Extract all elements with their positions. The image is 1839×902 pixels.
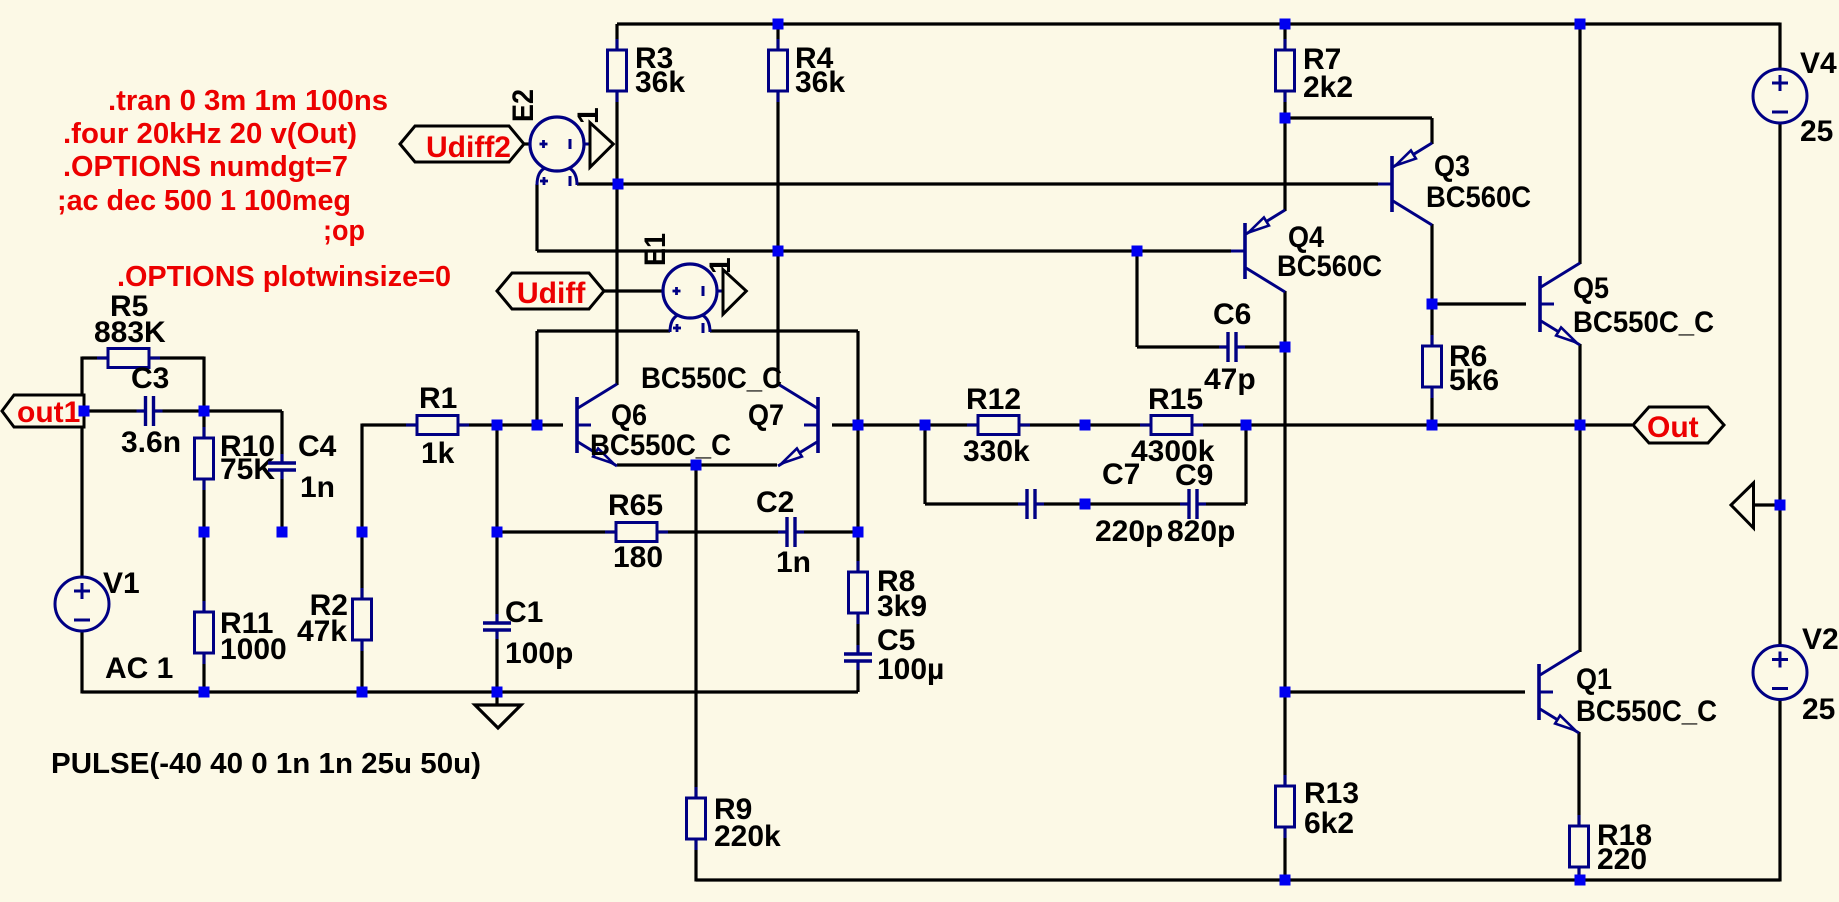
wire <box>856 661 859 692</box>
resistor R13 <box>1276 775 1295 838</box>
wire <box>1035 502 1189 505</box>
wire out1 flag to V1 <box>80 427 83 577</box>
resistor R5 <box>97 349 160 368</box>
node junction (362,532) <box>357 527 368 538</box>
svg-text:.tran 0 3m 1m 100ns: .tran 0 3m 1m 100ns <box>108 85 388 117</box>
wire bottom negative rail <box>696 878 1780 881</box>
node junction (1432,425) <box>1427 420 1438 431</box>
svg-text:C3: C3 <box>131 362 169 395</box>
net flag out1 <box>2 395 84 427</box>
resistor R12 <box>967 416 1030 435</box>
resistor R11 <box>195 601 214 664</box>
dependent source E2 <box>530 117 590 186</box>
node junction (204,532) <box>199 527 210 538</box>
svg-text:25: 25 <box>1800 115 1833 148</box>
wire <box>856 614 859 654</box>
wire V1 minus to ground bus <box>80 631 83 694</box>
resistor R6 <box>1423 335 1442 398</box>
wire <box>280 470 283 532</box>
node junction (1285,880) <box>1280 875 1291 886</box>
svg-text:3k9: 3k9 <box>877 590 927 623</box>
wire E1 minus control down to Q7 base <box>856 331 859 425</box>
node junction (1580,24) <box>1575 19 1586 30</box>
wire E1 minus control right <box>710 329 858 332</box>
node junction (497,425) <box>492 420 503 431</box>
node junction (362,692) <box>357 687 368 698</box>
svg-text:100p: 100p <box>505 637 573 670</box>
node junction (1285,692) <box>1280 687 1291 698</box>
svg-text:1: 1 <box>572 107 605 124</box>
svg-text:E1: E1 <box>639 233 672 266</box>
svg-text:C1: C1 <box>505 596 543 629</box>
wire C9 right up to R15 right <box>1244 425 1247 504</box>
svg-text:C2: C2 <box>756 486 794 519</box>
wire Udiff flag to E1 <box>604 289 664 292</box>
capacitor C7 <box>1018 489 1044 519</box>
svg-text:220k: 220k <box>714 820 781 853</box>
wire <box>776 24 779 50</box>
wire <box>1430 118 1433 144</box>
node junction (1432,304) <box>1427 299 1438 310</box>
wire E2 plus control down <box>535 184 538 251</box>
svg-text:.four 20kHz 20 v(Out): .four 20kHz 20 v(Out) <box>63 118 357 150</box>
wire to C6 left plate <box>1137 345 1228 348</box>
node junction (1580,880) <box>1575 875 1586 886</box>
svg-text:1000: 1000 <box>220 633 287 666</box>
svg-text:47p: 47p <box>1204 363 1256 396</box>
svg-text:R65: R65 <box>608 489 663 522</box>
svg-text:220p: 220p <box>1095 515 1163 548</box>
svg-text:V1: V1 <box>103 567 140 600</box>
node junction (618,184) <box>613 179 624 190</box>
wire C1 column <box>495 425 498 623</box>
wire Q5 emitter node to Q1 collector <box>1578 425 1581 652</box>
svg-text:BC560C: BC560C <box>1277 250 1382 283</box>
resistor R7 <box>1276 39 1295 102</box>
node junction (204,692) <box>199 687 210 698</box>
wire Q1 emitter to R18 <box>1577 732 1580 826</box>
svg-text:1: 1 <box>704 257 737 274</box>
svg-text:36k: 36k <box>795 66 845 99</box>
transistor Q4 (PNP) <box>1231 210 1285 292</box>
svg-text:V4: V4 <box>1800 47 1837 80</box>
wire <box>202 653 205 692</box>
svg-text:1n: 1n <box>776 546 811 579</box>
resistor R1 <box>406 416 469 435</box>
wire R5 right lead down <box>149 356 204 359</box>
svg-text:Q5: Q5 <box>1573 272 1609 305</box>
net flag Udiff <box>497 273 604 309</box>
wire C7 bypass bus <box>925 502 1027 505</box>
svg-text:5k6: 5k6 <box>1449 364 1499 397</box>
wire <box>1283 24 1286 50</box>
wire <box>1577 866 1580 882</box>
wire R2 column <box>360 532 363 599</box>
wire V2 minus down to bottom rail <box>1778 699 1781 882</box>
svg-text:V2: V2 <box>1802 623 1839 656</box>
node junction (858,532) <box>853 527 864 538</box>
wire Q6 Q7 emitter bus <box>617 463 777 466</box>
wire Q7 base node down to R8 <box>856 425 859 572</box>
svg-text:220: 220 <box>1597 843 1647 876</box>
wire junction down to C7 <box>923 425 926 504</box>
wire R6 top to Q5 base <box>1432 302 1526 305</box>
svg-text:6k2: 6k2 <box>1304 807 1354 840</box>
wire Q5 emitter down <box>1578 344 1581 425</box>
svg-text:out1: out1 <box>17 396 80 429</box>
voltage source V1 <box>55 577 109 631</box>
wire C3 to node <box>154 409 282 412</box>
svg-text:.OPTIONS numdgt=7: .OPTIONS numdgt=7 <box>63 151 348 183</box>
wire E2 plus control to Q4 base <box>537 249 1231 252</box>
svg-text:1n: 1n <box>300 471 335 504</box>
svg-text:Q6: Q6 <box>611 399 647 432</box>
capacitor C5 <box>844 645 872 670</box>
svg-text:;op: ;op <box>323 215 365 247</box>
wire Q5 collector to top rail <box>1578 24 1581 264</box>
resistor R10 <box>195 427 214 490</box>
wire Q7 base to R12 <box>832 423 978 426</box>
svg-text:Out: Out <box>1647 411 1699 444</box>
wire Q4 collector down to R13 and Q1 base <box>1283 291 1286 786</box>
wire top supply rail <box>617 22 1780 25</box>
transistor Q6 (NPN) <box>577 384 617 466</box>
transistor Q1 (NPN) <box>1539 651 1579 733</box>
wire <box>615 24 618 50</box>
node junction (84,411) <box>79 406 90 417</box>
svg-text:Q7: Q7 <box>748 399 784 432</box>
ground symbol (left-pointing, between V4 and V2) <box>1731 483 1754 528</box>
wire <box>1197 502 1246 505</box>
wire Q3 collector to R6 <box>1430 224 1433 346</box>
svg-text:820p: 820p <box>1167 515 1235 548</box>
wire C2 to junction <box>795 530 858 533</box>
wire <box>360 640 363 692</box>
svg-text:BC550C_C: BC550C_C <box>1576 695 1717 728</box>
wire E1 plus control left <box>537 329 670 332</box>
wire ground bus <box>82 690 858 693</box>
node junction (1780,505) <box>1775 500 1786 511</box>
gain triangle of E1 <box>723 270 746 315</box>
node junction (497,692) <box>492 687 503 698</box>
node junction (1285,118) <box>1280 113 1291 124</box>
node junction (1285,24) <box>1280 19 1291 30</box>
node junction (778,251) <box>773 246 784 257</box>
svg-text:Udiff2: Udiff2 <box>426 131 511 164</box>
svg-text:BC550C_C: BC550C_C <box>1573 306 1714 339</box>
svg-text:PULSE(-40 40 0 1n 1n 25u 50u): PULSE(-40 40 0 1n 1n 25u 50u) <box>51 748 481 780</box>
wire V4 to V2 <box>1778 123 1781 646</box>
wire Q1 base <box>1285 690 1525 693</box>
svg-text:;ac dec 500 1 100meg: ;ac dec 500 1 100meg <box>57 185 351 217</box>
svg-text:BC560C: BC560C <box>1426 181 1531 214</box>
voltage source V4 <box>1753 69 1807 123</box>
wire R1 left lead corner <box>362 423 417 426</box>
resistor R65 <box>605 523 668 542</box>
node junction (1246,425) <box>1241 420 1252 431</box>
resistor R15 <box>1140 416 1203 435</box>
ground symbol <box>495 692 498 705</box>
svg-text:R1: R1 <box>419 382 457 415</box>
svg-text:R12: R12 <box>966 383 1021 416</box>
gain triangle of E2 <box>590 123 613 168</box>
svg-text:R13: R13 <box>1304 777 1359 810</box>
wire E1 plus control down to Q6 base <box>535 331 538 425</box>
svg-text:25: 25 <box>1802 693 1835 726</box>
wire top rail right corner down to V4 <box>1778 23 1781 70</box>
wire <box>202 532 205 612</box>
wire <box>202 479 205 532</box>
node junction (282,532) <box>277 527 288 538</box>
capacitor C6 <box>1219 332 1245 362</box>
wire emitter bus down to R9 <box>694 465 697 798</box>
dependent source E1 <box>663 264 723 333</box>
svg-text:883K: 883K <box>94 316 166 349</box>
node junction (925,425) <box>920 420 931 431</box>
wire R6 bottom to output row <box>1430 387 1433 425</box>
node junction (497,532) <box>492 527 503 538</box>
node junction (1285,347) <box>1280 342 1291 353</box>
svg-text:BC550C_C: BC550C_C <box>641 362 782 395</box>
node junction (858,425) <box>853 420 864 431</box>
wire R7 junction to Q4 emitter <box>1283 118 1286 211</box>
wire R1 to Q6 base <box>458 423 563 426</box>
svg-text:Q1: Q1 <box>1576 663 1612 696</box>
wire out1 node to C3 <box>84 409 145 412</box>
transistor Q3 (PNP) <box>1378 143 1432 225</box>
wire Q4 base junction down <box>1135 251 1138 347</box>
resistor R3 <box>608 39 627 102</box>
svg-text:75K: 75K <box>220 453 275 486</box>
svg-text:R15: R15 <box>1148 383 1203 416</box>
transistor Q7 (NPN) <box>778 384 818 466</box>
node junction (696,465) <box>691 460 702 471</box>
wire <box>1283 827 1286 880</box>
net flag Out <box>1633 407 1724 443</box>
wire E2 minus control to Q3 base <box>577 182 1378 185</box>
wire R65 row left <box>497 530 787 533</box>
resistor R8 <box>849 561 868 624</box>
node junction (1085,425) <box>1080 420 1091 431</box>
voltage source V2 <box>1753 646 1807 700</box>
svg-text:Udiff: Udiff <box>517 277 586 310</box>
wire <box>495 630 498 692</box>
node junction (1137,251) <box>1132 246 1143 257</box>
resistor R9 <box>687 787 706 850</box>
wire R12 to R15 <box>1019 423 1151 426</box>
capacitor C2 <box>778 517 804 547</box>
wire <box>1236 345 1285 348</box>
svg-text:C6: C6 <box>1213 298 1251 331</box>
resistor R2 <box>353 588 372 651</box>
svg-text:3.6n: 3.6n <box>121 426 181 459</box>
svg-text:100µ: 100µ <box>877 653 944 686</box>
svg-text:2k2: 2k2 <box>1303 71 1353 104</box>
node junction (204,411) <box>199 406 210 417</box>
svg-text:C7: C7 <box>1102 458 1140 491</box>
resistor R4 <box>769 39 788 102</box>
svg-text:BC550C_C: BC550C_C <box>590 429 731 462</box>
capacitor C1 <box>483 614 511 639</box>
svg-text:180: 180 <box>613 541 663 574</box>
node junction (537,425) <box>532 420 543 431</box>
wire <box>1283 91 1286 118</box>
svg-text:E2: E2 <box>507 89 540 122</box>
node junction (1580,425) <box>1575 420 1586 431</box>
capacitor C4 <box>268 454 296 479</box>
wire R3 bottom to Q6 collector <box>615 91 618 385</box>
svg-text:47k: 47k <box>297 615 347 648</box>
wire R5 left lead <box>82 356 108 359</box>
svg-text:.OPTIONS plotwinsize=0: .OPTIONS plotwinsize=0 <box>117 261 451 293</box>
wire R4 bottom to Q7 collector <box>776 91 779 385</box>
wire R7 bottom junction to Q3 emitter <box>1285 116 1432 119</box>
resistor R18 <box>1570 815 1589 878</box>
net flag Udiff2 <box>400 126 524 162</box>
node junction (1085,504) <box>1080 499 1091 510</box>
svg-text:330k: 330k <box>963 435 1030 468</box>
wire ground arrow lead <box>1754 503 1780 506</box>
capacitor C9 <box>1180 489 1206 519</box>
wire R10 column <box>202 411 205 438</box>
svg-text:AC 1: AC 1 <box>105 652 173 685</box>
svg-text:C4: C4 <box>298 430 337 463</box>
svg-text:36k: 36k <box>635 66 685 99</box>
capacitor C3 <box>137 396 163 426</box>
svg-text:Q3: Q3 <box>1434 150 1470 183</box>
svg-text:C9: C9 <box>1175 459 1213 492</box>
wire R15 to Out flag <box>1194 423 1632 426</box>
node junction (778,24) <box>773 19 784 30</box>
transistor Q5 (NPN) <box>1540 263 1580 345</box>
wire Udiff2 flag to E2 <box>524 142 531 145</box>
wire node to C4 <box>280 411 283 463</box>
wire <box>694 840 697 882</box>
svg-text:1k: 1k <box>421 437 455 470</box>
